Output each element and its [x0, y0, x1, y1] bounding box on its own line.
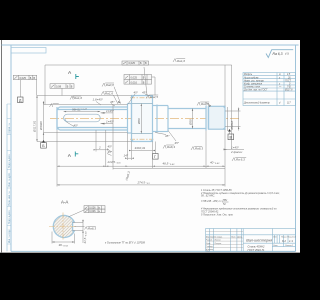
technical requirements [200, 189, 280, 217]
right end dia dim [225, 110, 241, 112]
sheet [0, 40, 300, 253]
svg-text:Делительный диаметр: Делительный диаметр [243, 102, 270, 105]
section right of gear [153, 105, 169, 133]
top-left corner stamp box [11, 48, 46, 54]
svg-text:к Остальные ТТ по БТУ и' 1070: к Остальные ТТ по БТУ и' 107009 [105, 241, 146, 244]
svg-text:36₋₀,₆₂: 36₋₀,₆₂ [59, 243, 69, 247]
dim 2 small [94, 149, 109, 150]
svg-text:2: 2 [98, 145, 101, 149]
svg-text:58...62 HRC.: 58...62 HRC. [201, 195, 215, 198]
collar [128, 104, 132, 134]
svg-text:Т.контр.: Т.контр. [206, 246, 214, 248]
svg-text:1,6×45°: 1,6×45° [93, 98, 104, 102]
F2 leader [61, 88, 63, 95]
svg-text:Ra6,3: Ra6,3 [88, 226, 96, 230]
A-A keyway dims right [73, 220, 85, 244]
svg-text:m: m [279, 74, 281, 76]
keyway 45 label [67, 122, 75, 127]
svg-text:Справ. №: Справ. № [8, 123, 11, 134]
svg-text:1:1: 1:1 [289, 239, 293, 243]
chamfer note right fraction [224, 149, 245, 151]
keyway chamfer leaders [101, 112, 114, 125]
svg-text:45°: 45° [175, 141, 180, 145]
svg-text:Ra6,3: Ra6,3 [195, 147, 203, 151]
svg-text:45°: 45° [108, 145, 113, 149]
svg-text:0,016: 0,016 [131, 80, 138, 84]
dim 34 gear width [129, 150, 155, 151]
svg-text:Пров.: Пров. [206, 243, 211, 245]
feature frame F2 [50, 84, 74, 89]
svg-text:Коэф. смещения: Коэф. смещения [244, 83, 263, 86]
gear parameter table [243, 73, 296, 106]
datum V flag [228, 129, 234, 140]
svg-text:Степень точн.: Степень точн. [244, 87, 261, 89]
title block row lines [206, 232, 244, 248]
svg-text:Ra1,6: Ra1,6 [177, 59, 185, 63]
bearing seat fill [206, 106, 225, 129]
svg-text:Листов 1: Листов 1 [284, 245, 293, 247]
svg-text:Ra1,6: Ra1,6 [105, 92, 113, 96]
gear root lines [132, 104, 153, 134]
roughness above gear [144, 67, 158, 99]
A-A roughness [85, 227, 96, 230]
gear root diameter dim [141, 104, 142, 134]
ext v227 [227, 107, 229, 131]
svg-text:ТВЧ: ТВЧ [223, 199, 228, 202]
A-A centerlines [49, 226, 77, 228]
gear section fill [132, 96, 153, 142]
svg-text:Ra6,3: Ra6,3 [167, 145, 175, 149]
svg-text:1×45°: 1×45° [106, 109, 115, 113]
svg-text:ГОСТ: ГОСТ [285, 80, 292, 82]
svg-text:5 Покрытие: Хим. Окс. прм.: 5 Покрытие: Хим. Окс. прм. [201, 214, 233, 217]
svg-text:0,026: 0,026 [89, 210, 96, 213]
svg-text:Вал-шестерня: Вал-шестерня [246, 238, 272, 242]
keyway slot [64, 114, 101, 122]
svg-text:Ø60: Ø60 [137, 118, 141, 125]
svg-text:40₋₀,₆₂: 40₋₀,₆₂ [210, 161, 220, 165]
material [248, 245, 266, 252]
feature frame F1 [13, 75, 36, 80]
roughness left stack1 [102, 83, 114, 87]
roughness left stack2 [101, 91, 113, 95]
secondary dim line [113, 168, 225, 170]
svg-text:Д-р дел. окр. по ГОСТ: Д-р дел. окр. по ГОСТ [243, 89, 268, 92]
svg-text:(√): (√) [285, 52, 289, 56]
svg-text:Ra0,8: Ra0,8 [106, 83, 114, 87]
runout frame on line [122, 61, 149, 65]
svg-text:0,08: 0,08 [56, 85, 62, 89]
sidebar boxes [7, 104, 11, 244]
gear table text [243, 73, 293, 104]
svg-text:274,5₋₁,₃: 274,5₋₁,₃ [137, 180, 151, 184]
long journal [168, 106, 206, 131]
svg-text:7-В: 7-В [287, 87, 291, 89]
roughness right [232, 158, 246, 162]
svg-text:45°: 45° [142, 91, 147, 95]
ext v45 [44, 65, 46, 105]
svg-text:6,2: 6,2 [282, 239, 286, 243]
svg-text:ГОСТ 4543-71: ГОСТ 4543-71 [248, 248, 266, 252]
svg-text:Инв. № дубл.: Инв. № дубл. [8, 172, 11, 187]
svg-text:Ø117,8: Ø117,8 [284, 90, 293, 92]
svg-text:Лист: Лист [272, 245, 278, 247]
svg-text:0,025: 0,025 [20, 76, 27, 80]
bearing seat [209, 106, 226, 129]
gear corner chamfers [132, 96, 153, 142]
roughness left end [50, 104, 59, 108]
svg-text:Модуль: Модуль [244, 73, 253, 76]
svg-text:Подп.: Подп. [231, 235, 236, 238]
svg-text:Ø50: Ø50 [188, 119, 192, 126]
svg-text:1×45°: 1×45° [106, 120, 115, 124]
ext lines below shaft [57, 129, 225, 186]
svg-text:Дата: Дата [236, 236, 242, 238]
svg-text:214,5₋₁,₁₅: 214,5₋₁,₁₅ [107, 160, 122, 164]
left gear OD extension lines [37, 95, 132, 97]
F4 leader to gear [154, 85, 156, 96]
A-A width dim [52, 232, 75, 244]
svg-text:Лит.: Лит. [272, 237, 278, 239]
stack2 leader [113, 95, 118, 104]
svg-text:45°: 45° [74, 123, 79, 127]
svg-text:Разраб.: Разраб. [206, 240, 213, 242]
ext v231 [231, 65, 233, 149]
svg-text:2 фаски: 2 фаски [230, 150, 243, 154]
svg-text:0,025: 0,025 [129, 61, 136, 65]
gear pitch line top [130, 97, 154, 99]
svg-text:Норм. исх. контур: Норм. исх. контур [244, 80, 264, 82]
title block small texts [206, 235, 242, 252]
roughness mark sheet corner [266, 50, 293, 58]
svg-text:Взам. инв. №: Взам. инв. № [8, 191, 11, 206]
sidebar rotated labels [8, 123, 11, 243]
gear pitch line bottom [130, 138, 154, 140]
datum G flag below gear [153, 142, 159, 160]
A-A section circle with keyway flat [53, 215, 74, 237]
svg-text:Ø117,81: Ø117,81 [33, 120, 37, 133]
frame top [1, 44, 298, 46]
svg-text:Петров: Петров [215, 243, 222, 245]
datum flag below F1 [19, 80, 21, 97]
dim 274.5 overall [57, 184, 225, 185]
svg-text:56H11⁺⁰·¹⁹: 56H11⁺⁰·¹⁹ [72, 108, 87, 112]
dim 4 collar [125, 158, 134, 159]
roughness above slot [70, 96, 81, 100]
svg-text:45°: 45° [110, 100, 115, 104]
sheet edge left [0, 40, 2, 253]
chained dim line [57, 166, 225, 167]
sidebar column line [6, 104, 8, 251]
svg-text:41,5₋₀,₃₄: 41,5₋₀,₃₄ [83, 231, 87, 244]
svg-text:Подп. и дата: Подп. и дата [9, 210, 11, 224]
feature frames F4 F5 above gear [124, 75, 152, 85]
svg-text:45°: 45° [134, 91, 139, 95]
shaft section 1 keyway journal [57, 104, 128, 134]
frame bottom [11, 250, 296, 252]
svg-text:0,025: 0,025 [131, 76, 138, 80]
svg-text:Ø40k6: Ø40k6 [39, 121, 43, 131]
centerline [50, 118, 240, 120]
svg-text:3 HB 245...280; m =: 3 HB 245...280; m = [201, 200, 223, 203]
lit massa masshtab [272, 237, 297, 239]
roughness bearing seat [197, 102, 211, 107]
svg-text:Иванов: Иванов [215, 240, 221, 242]
svg-text:46,5₋₀,₆₂: 46,5₋₀,₆₂ [163, 161, 176, 165]
svg-text:Подп. и дата: Подп. и дата [9, 154, 11, 168]
keyway length dim [64, 111, 101, 112]
vertical dim gear OD [36, 96, 37, 142]
ext line x113 [112, 105, 114, 170]
A-A feature frames [69, 206, 106, 217]
top overall dim line [45, 64, 232, 66]
roughness below gear right [163, 145, 174, 149]
svg-text:Число зубьев: Число зубьев [244, 77, 259, 79]
svg-text:Ø40k6: Ø40k6 [230, 120, 234, 130]
F1 leader [36, 80, 38, 96]
roughness top mid [173, 59, 185, 63]
svg-text:А-А: А-А [61, 200, 68, 205]
svg-text:Ra0,8: Ra0,8 [201, 102, 209, 106]
ext v225 [224, 65, 226, 106]
svg-text:45°: 45° [108, 150, 113, 154]
stack1 leader [114, 87, 121, 104]
svg-text:Ra 6,3: Ra 6,3 [236, 158, 245, 162]
datum B flag [41, 134, 47, 149]
collar extension lines [44, 104, 128, 106]
gear section [132, 96, 153, 142]
svg-text:Инв. № подл.: Инв. № подл. [8, 228, 11, 243]
frame left [10, 45, 12, 251]
journal dia dim right [192, 109, 193, 129]
frame right [295, 45, 297, 251]
svg-text:№ докум.: № докум. [215, 235, 223, 238]
svg-text:Ra 6,3: Ra 6,3 [273, 52, 283, 56]
sheet edge bottom [0, 252, 300, 254]
svg-text:34±0,31: 34±0,31 [135, 146, 146, 150]
svg-text:Утв.: Утв. [206, 250, 211, 252]
title block [206, 229, 296, 252]
svg-text:Ra1,6: Ra1,6 [74, 96, 82, 100]
svg-text:Г: Г [154, 155, 156, 159]
vertical dim collar [43, 101, 44, 135]
roughness below journal [191, 147, 202, 151]
